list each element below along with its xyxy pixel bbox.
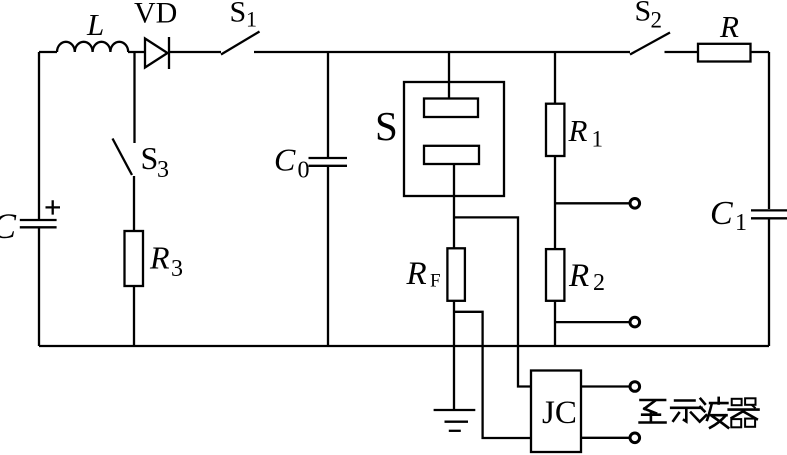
- resistor RF: [447, 248, 465, 300]
- wire R1 R2 branch: [554, 52, 556, 104]
- tap terminal 2: [555, 321, 630, 323]
- wire bottom plate down: [453, 164, 455, 248]
- box S: [404, 82, 504, 196]
- wire C0 branch: [327, 52, 329, 158]
- svg-text:S: S: [635, 0, 652, 28]
- svg-text:F: F: [430, 271, 441, 292]
- plus sign of C: [46, 200, 61, 214]
- tap terminal 1: [555, 202, 630, 204]
- resistor R: [698, 44, 751, 62]
- svg-text:S: S: [375, 103, 398, 149]
- wire branch to JC upper: [454, 217, 531, 386]
- resistor R1: [546, 104, 564, 156]
- svg-text:S: S: [230, 0, 247, 29]
- JC terminal lower: [581, 437, 630, 439]
- wire R to right rail: [751, 51, 770, 53]
- bo char: [701, 399, 705, 404]
- text zhi shi bo qi: [640, 398, 759, 428]
- capacitor C1: [751, 209, 787, 211]
- resistor R2: [546, 249, 564, 301]
- inductor L: [57, 42, 128, 52]
- svg-text:S: S: [141, 140, 159, 176]
- JC terminal upper: [581, 385, 630, 387]
- svg-text:1: 1: [592, 127, 604, 152]
- svg-text:2: 2: [593, 270, 605, 296]
- svg-text:VD: VD: [134, 0, 177, 30]
- wire RF to ground: [453, 301, 455, 410]
- svg-text:R: R: [406, 256, 427, 292]
- shi char: [675, 399, 694, 402]
- capacitor C: [20, 219, 57, 221]
- switch S1: [221, 32, 260, 55]
- resistor R3: [125, 231, 144, 286]
- wire left vertical: [38, 52, 40, 219]
- bottom plate in S: [424, 146, 479, 164]
- svg-text:R: R: [149, 240, 170, 276]
- svg-text:C: C: [0, 206, 17, 246]
- zhi char: [641, 399, 666, 402]
- switch S3: [113, 139, 133, 176]
- wire top left to inductor: [39, 51, 57, 53]
- wire S2 to R: [665, 51, 699, 53]
- qi char: [732, 399, 742, 405]
- wire bottom rail: [39, 345, 769, 347]
- svg-text:1: 1: [246, 7, 257, 32]
- svg-text:L: L: [86, 7, 104, 42]
- wire R2 to bottom: [554, 301, 556, 346]
- wire S1 to S2: [254, 51, 630, 53]
- svg-text:R: R: [719, 9, 739, 44]
- ground: [434, 409, 476, 411]
- wire inductor to diode: [128, 51, 145, 53]
- wire diode to S1: [169, 51, 221, 53]
- svg-text:3: 3: [157, 157, 169, 183]
- wire right vertical: [768, 52, 770, 209]
- wire S3 to R3: [133, 176, 135, 231]
- switch S2: [630, 33, 670, 55]
- wire S3 branch from top: [133, 52, 135, 143]
- diode VD: [145, 39, 168, 68]
- wire into S box: [448, 52, 450, 99]
- box JC: [531, 371, 581, 453]
- svg-text:3: 3: [171, 256, 183, 282]
- svg-text:R: R: [568, 258, 589, 294]
- svg-text:C: C: [274, 142, 296, 178]
- svg-text:JC: JC: [542, 395, 577, 431]
- svg-text:2: 2: [651, 7, 663, 32]
- capacitor C0: [309, 157, 348, 159]
- wire R3 to bottom: [133, 286, 135, 346]
- wire R1 to R2: [554, 156, 556, 249]
- top plate in S: [424, 99, 478, 118]
- svg-text:R: R: [568, 113, 588, 148]
- svg-text:1: 1: [735, 210, 747, 236]
- wire branch to JC lower: [454, 312, 531, 438]
- svg-text:C: C: [710, 195, 733, 232]
- svg-text:0: 0: [298, 158, 310, 184]
